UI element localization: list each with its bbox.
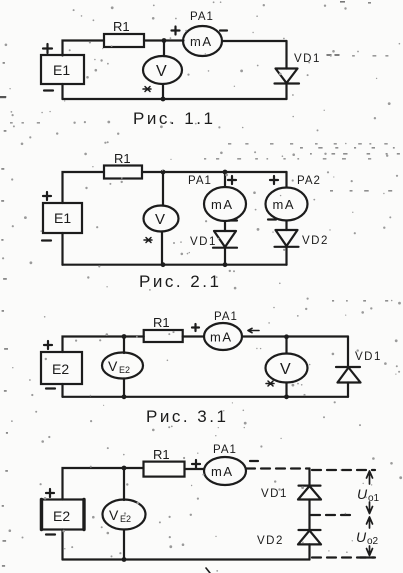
svg-text:V: V: [155, 211, 165, 228]
ammeter PA1 (fig1): [183, 26, 222, 56]
svg-text:V: V: [156, 63, 167, 80]
wire diode to bottom rail (fig1): [285, 84, 287, 100]
label mA inside PA1 (fig4): [211, 464, 234, 479]
voltmeter V (fig2): [144, 206, 179, 232]
asterisk near voltmeter (fig2): [144, 238, 152, 243]
junction dot voltmeter branch (fig2): [161, 170, 166, 175]
plus mark ammeter input (fig3): [192, 324, 199, 331]
svg-text:V: V: [280, 361, 291, 378]
svg-text:VD1: VD1: [355, 351, 382, 363]
wire PA2 branch top (fig2): [285, 172, 287, 187]
wire E2 minus to bottom rail (fig3): [61, 384, 63, 397]
svg-text:E2: E2: [120, 514, 131, 524]
voltmeter V (fig1): [143, 56, 182, 84]
resistor R1 (fig2): [104, 166, 142, 179]
minus mark PA1 (fig2): [229, 219, 237, 221]
minus mark PA2 (fig2): [268, 218, 276, 220]
bottom rail (fig4): [63, 558, 310, 560]
label VD2 (fig4): [257, 535, 284, 547]
bottom rail (fig1): [63, 98, 287, 100]
svg-text:R1: R1: [113, 19, 130, 34]
svg-text:PA1: PA1: [190, 11, 214, 23]
plus mark ammeter input (fig4): [192, 460, 200, 468]
bottom end bar of dimension (fig4): [360, 556, 374, 558]
bottom rail (fig3): [63, 396, 349, 398]
wire PA1 to diode VD1 (fig2): [224, 221, 226, 231]
wire PA2 to diode VD2 (fig2): [285, 221, 287, 231]
ammeter PA2 (fig2): [266, 188, 308, 221]
plus mark of E1 (fig2): [43, 192, 51, 200]
svg-text:VD1: VD1: [261, 488, 288, 500]
bottom rail (fig2): [63, 264, 287, 266]
label Uo2 (fig4): [356, 529, 379, 547]
svg-text:o1: o1: [368, 493, 380, 504]
wire VE2 to bottom rail (fig4): [123, 530, 125, 560]
wire R1 to ammeter (fig3): [183, 335, 204, 337]
label mA inside PA1 (fig1): [190, 34, 213, 49]
wire VD1 to bottom rail (fig2): [224, 248, 226, 265]
svg-text:mA: mA: [273, 197, 296, 212]
caption Fig 3.1: [146, 407, 228, 426]
label VD1 (fig3): [355, 351, 382, 363]
diode VD1 (fig2): [213, 231, 237, 248]
label PA1 (fig4): [213, 444, 237, 456]
label E1 (fig2): [54, 210, 71, 226]
label VD1 (fig4): [261, 488, 288, 500]
label PA1 (fig1): [190, 11, 214, 23]
voltmeter VE2 (fig4): [103, 500, 146, 530]
label VE2 inside (fig4): [109, 507, 131, 524]
svg-text:VD1: VD1: [190, 236, 217, 248]
battery E2 (fig4): [41, 500, 84, 530]
caption fragment bottom (fig4, cut off): [206, 568, 210, 573]
resistor R1 (fig3): [144, 330, 183, 342]
svg-text:E1: E1: [53, 62, 70, 78]
junction dot voltmeter/bottom rail (fig2): [161, 262, 166, 267]
wire down to diode VD1 (fig1): [285, 41, 287, 69]
dashed wire ammeter to diode node (fig4): [246, 467, 310, 469]
wire R1 to ammeter (fig4): [185, 468, 205, 470]
voltmeter V (fig3): [266, 354, 308, 383]
wire VE2 branch (fig3): [123, 337, 125, 354]
wire VE2 to bottom rail (fig3): [123, 379, 125, 397]
label R1 (fig3): [153, 315, 170, 330]
label PA2 (fig2): [297, 175, 321, 187]
diode VD1 (fig4, pointing up): [298, 486, 321, 500]
label VE2 inside (fig3): [108, 358, 130, 375]
wire E1 plus to R1 (fig2): [63, 172, 105, 203]
svg-text:PA2: PA2: [297, 175, 321, 187]
asterisk near voltmeter (fig3): [266, 381, 274, 386]
plus mark of E2 (fig3): [44, 341, 52, 349]
wire E1 plus terminal to R1 (fig1 top-left): [63, 41, 105, 56]
svg-text:VD1: VD1: [294, 53, 321, 65]
label E2 (fig4): [53, 508, 70, 524]
wire E2 plus to R1 (fig4): [63, 468, 144, 500]
label Uo1 (fig4): [357, 486, 380, 504]
label V inside voltmeter (fig2): [155, 211, 165, 228]
svg-text:E2: E2: [53, 508, 70, 524]
wire node to diode VD1 (fig4): [308, 469, 310, 486]
wire E2 plus to R1 (fig3): [63, 337, 144, 353]
svg-text:E1: E1: [54, 210, 71, 226]
wire VD1 to VD2 (fig4): [308, 500, 310, 531]
plus mark at ammeter input (fig1): [172, 27, 180, 35]
voltmeter VE2 (fig3): [102, 353, 143, 379]
junction dot PA1 branch (fig2): [223, 170, 228, 175]
svg-text:PA1: PA1: [188, 175, 212, 187]
wire E2 to rails (fig4): [61, 530, 63, 560]
wire VD2 to bottom rail (fig2): [285, 247, 287, 265]
minus mark of E2 (fig3): [46, 387, 55, 389]
minus mark of E2 (fig4): [46, 533, 55, 535]
wire ammeter to right corner (fig3): [242, 335, 348, 337]
svg-text:PA1: PA1: [213, 444, 237, 456]
dashes right of VD1 label (fig1, scan marks): [327, 54, 339, 56]
arrow mark right of PA1 (fig3): [248, 328, 259, 332]
battery E2 (fig3): [41, 352, 82, 384]
svg-text:U: U: [357, 486, 368, 502]
label R1 (fig2): [114, 151, 131, 166]
svg-text:E2: E2: [119, 365, 130, 375]
wire voltmeter to bottom rail (fig2): [161, 232, 163, 265]
plus mark PA2 (fig2): [270, 176, 278, 184]
svg-text:VD2: VD2: [257, 535, 284, 547]
wire bottom rail to E1 minus (fig1): [61, 84, 63, 99]
svg-text:R1: R1: [153, 447, 170, 462]
plus mark of E2 (fig4): [46, 489, 54, 497]
junction dot voltmeter/bottom rail (fig1): [161, 97, 166, 102]
wire voltmeter branch (fig3): [285, 337, 287, 354]
svg-text:E2: E2: [52, 361, 69, 377]
diode VD1 (fig3, pointing up): [336, 367, 361, 383]
label VD1 (fig1): [294, 53, 321, 65]
junction dot VE2 branch top (fig3): [122, 334, 127, 339]
node junction R1/voltmeter (fig1): [162, 38, 167, 43]
wire VE2 branch (fig4): [123, 468, 125, 500]
label R1 (fig1): [113, 19, 130, 34]
svg-text:VD2: VD2: [302, 235, 329, 247]
wire VD2 to bottom rail (fig4): [308, 544, 310, 559]
label VD1 (fig2): [190, 236, 217, 248]
svg-text:mA: mA: [190, 34, 213, 49]
label V inside voltmeter (fig1): [156, 63, 167, 80]
label mA inside PA1 (fig2): [211, 197, 234, 212]
wire voltmeter branch (fig1): [163, 41, 165, 56]
caption Fig 2.1: [139, 272, 221, 291]
ammeter PA1 (fig3): [204, 323, 242, 350]
label E2 (fig3): [52, 361, 69, 377]
diode VD2 (fig2): [275, 230, 299, 247]
svg-text:U: U: [356, 529, 367, 545]
middle dashed line to Uo arrows (fig4): [311, 514, 356, 516]
svg-text:o2: o2: [367, 536, 379, 547]
svg-text:Рис. 3.1: Рис. 3.1: [146, 407, 228, 426]
Uo2 dimension arrow (fig4): [367, 517, 373, 556]
wire R1 to branches (fig2): [142, 171, 287, 173]
label E1 (fig1): [53, 62, 70, 78]
svg-text:PA1: PA1: [214, 311, 238, 323]
resistor R1 (fig1): [104, 34, 144, 47]
minus mark of E1 (fig2): [42, 239, 51, 241]
label VD2 (fig2): [302, 235, 329, 247]
svg-text:R1: R1: [153, 315, 170, 330]
label mA inside PA1 (fig3): [210, 330, 233, 345]
Uo1 dimension arrow (fig4): [367, 471, 373, 514]
label V inside voltmeter (fig3): [280, 361, 291, 378]
label mA inside PA2 (fig2): [273, 197, 296, 212]
svg-text:mA: mA: [211, 197, 234, 212]
dashed bottom extension (fig4): [312, 556, 375, 558]
wire ammeter to diode branch (fig1): [222, 40, 287, 42]
label PA1 (fig2): [188, 175, 212, 187]
junction dot VE2 branch top (fig4): [122, 466, 127, 471]
junction dot VD1/bottom rail (fig2): [223, 262, 228, 267]
ammeter PA1 (fig4): [204, 457, 246, 485]
asterisk mark near voltmeter (fig1): [143, 87, 151, 92]
battery E1 (fig1): [41, 55, 84, 84]
label PA1 (fig3): [214, 311, 238, 323]
minus tick at ammeter output (fig1): [220, 29, 227, 31]
wire E1 minus to bottom rail (fig2): [61, 233, 63, 265]
plus mark of E1 (fig1): [43, 44, 52, 53]
svg-text:mA: mA: [210, 330, 233, 345]
caption Fig 1.1: [133, 109, 215, 128]
dashed wire node to Uo1 arrow (fig4): [312, 469, 375, 471]
minus mark of E1 (fig1): [44, 89, 53, 91]
junction dot voltmeter/bottom rail (fig3): [284, 394, 289, 399]
wire diode to bottom rail (fig3): [347, 383, 349, 397]
svg-text:mA: mA: [211, 464, 234, 479]
diode VD2 (fig4, pointing up): [298, 530, 321, 544]
svg-text:Рис. 1.1: Рис. 1.1: [133, 109, 215, 128]
svg-text:V: V: [109, 507, 119, 523]
wire down right side to diode (fig3): [347, 337, 349, 368]
svg-text:Рис. 2.1: Рис. 2.1: [139, 272, 221, 291]
svg-text:V: V: [108, 358, 118, 374]
junction dot voltmeter branch (fig3): [284, 334, 289, 339]
resistor R1 (fig4): [144, 462, 185, 477]
wire voltmeter to bottom rail (fig3): [285, 383, 287, 397]
diode VD1 (fig1): [275, 69, 300, 84]
wire voltmeter to bottom rail (fig1): [162, 84, 164, 99]
label R1 (fig4): [153, 447, 170, 462]
plus mark PA1 (fig2): [228, 176, 236, 184]
junction dot VE2/bottom rail (fig4): [122, 557, 127, 562]
svg-text:R1: R1: [114, 151, 131, 166]
wire PA1 branch top (fig2): [224, 172, 226, 187]
wire voltmeter branch (fig2): [162, 172, 164, 206]
wire R1 to ammeter (fig1): [144, 39, 184, 41]
minus mark PA1 (fig4): [250, 460, 258, 462]
junction dot VE2/bottom rail (fig3): [122, 394, 127, 399]
battery E1 (fig2): [43, 203, 82, 233]
ammeter PA1 (fig2): [204, 187, 246, 221]
